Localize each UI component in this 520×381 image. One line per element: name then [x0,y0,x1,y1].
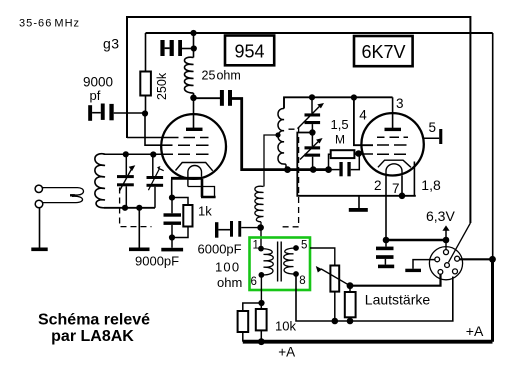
svg-text:+A: +A [278,345,295,360]
tube U2 6K7 envelope [361,113,423,175]
tube U2 anode pin3 [392,97,394,128]
resistor 1,5M [329,150,359,169]
inductor 25 ohm [184,33,240,98]
node inter-cap [309,129,315,135]
resistor A (parallel pair left) [238,303,262,342]
tube U2 pin2 lead [385,176,387,240]
ground socket [405,269,421,272]
wire pin6 down [260,275,262,303]
capacitor cathode bypass [164,198,182,248]
antenna link coil [43,188,84,195]
svg-text:1,8: 1,8 [421,177,441,193]
node varcapB bottom [310,166,317,173]
node resistor left [325,166,332,173]
wire rail right leg [413,162,415,196]
capacitor 9000pf [83,74,145,120]
dashed shield tuning coil [120,188,152,227]
node resistor pair top [258,300,264,306]
svg-text:+A: +A [466,323,484,339]
tube U1 anode [193,98,195,128]
inductor IF transformer primary [278,97,286,169]
node cathode tube1 [169,195,175,201]
resistor 250k [140,33,169,114]
wire grid2 branch tube2 [354,98,373,146]
wire B+ bus y=33 [146,32,493,34]
svg-text:6000pF: 6000pF [198,242,242,257]
node +A right [489,256,496,263]
transformer T1 green box [250,238,311,291]
svg-text:1: 1 [253,240,259,252]
wire socket left pin to ground [413,260,435,269]
tube U2 screen dome [378,160,411,167]
node grid2 branch [351,94,357,100]
node varcap2 top [150,151,156,157]
svg-text:10k: 10k [275,318,296,333]
node 10k chain bottom [332,318,339,325]
svg-text:g3: g3 [103,36,120,52]
inductor main tuning coil [95,154,105,208]
wire g3 loop top [127,17,470,223]
svg-text:7: 7 [392,181,400,196]
node pot bottom [347,318,354,325]
wire +A right drop [491,259,494,341]
tube U1 cathode bar [171,177,202,180]
node coil tap [275,132,280,137]
wire pin5 to series resistor [310,248,335,266]
wire intercap to cathode rail [297,133,416,196]
tube U1 grid2 dashes [178,144,209,146]
node cathode RC bottom [169,234,175,240]
tube U1 grid1 (g3) dashes [127,137,209,139]
variable capacitor CB [300,133,323,170]
svg-text:6: 6 [251,276,257,288]
ground antenna [31,248,47,252]
svg-text:25 ohm: 25 ohm [202,69,241,83]
svg-text:8: 8 [299,275,305,287]
svg-text:100: 100 [215,259,240,274]
capacitor anode coupling tube1 [194,90,233,106]
resistor B (parallel pair right) [256,303,267,342]
capacitor grid coupling top (at 160,48) [160,40,194,56]
wire socket shield pointer [449,223,471,262]
wire coil bottom [104,207,155,209]
svg-text:6,3V: 6,3V [426,208,455,224]
tube U1 grid3 wire from coil [104,153,209,155]
wire socket right pin to +A drop [460,258,493,260]
svg-text:2: 2 [374,178,382,193]
svg-text:3: 3 [396,96,404,111]
capacitor 6000pF [198,221,259,257]
inductor RF choke [255,186,264,222]
svg-text:Schéma relevé: Schéma relevé [38,312,150,329]
svg-text:1,5: 1,5 [331,117,349,132]
junction dot cap/25ohm [191,45,197,51]
svg-text:5: 5 [301,239,307,251]
node pin7 cathode [399,193,406,200]
wire cathode lead tube1 [171,180,173,198]
tube U2 grid2 dashes [377,144,407,146]
wire IF top [284,97,393,108]
node varcapA top [309,94,315,100]
tube U2 grid3 dashes [359,153,406,155]
tube U1 screen dome [176,163,213,171]
potentiometer Lautstaerke [316,266,431,321]
capacitor heater bypass stack [376,240,394,268]
svg-text:M: M [335,132,345,146]
pin 5 wire and stub [423,137,439,139]
tube U1 heater strap [188,187,215,198]
node 250k/9000pf junction [142,110,148,116]
svg-text:9000pF: 9000pF [135,253,179,268]
wire coupling to IF transformer [232,99,329,170]
svg-text:ohm: ohm [217,275,242,290]
node varcap1 bottom [122,205,128,211]
wire heater 6,3V [386,239,446,242]
svg-text:Lautstärke: Lautstärke [365,291,431,307]
wire to grid2 of tube1 [145,114,173,146]
svg-text:954: 954 [234,42,264,62]
node grid3 tube2 [355,150,362,157]
transformer T1 windings [258,242,299,282]
svg-text:6K7V: 6K7V [361,42,405,62]
tube U1 954 envelope [161,114,226,179]
tube U2 grid1 dashes [377,136,408,138]
ground cathode [161,248,183,252]
wire tap to choke [264,135,278,187]
svg-text:5: 5 [429,120,437,135]
wire choke to transformer pin1 [260,228,262,249]
resistor 1k [172,198,212,238]
box label 954 [225,36,274,66]
svg-text:1k: 1k [198,203,212,218]
dashed shield IF [280,127,299,227]
svg-text:250k: 250k [155,72,169,100]
svg-text:pf: pf [90,88,101,103]
resistor series 10k [330,266,339,292]
wire ground branch coil [138,208,140,248]
svg-text:par LA8AK: par LA8AK [51,328,134,345]
tube U1 heater arch [188,166,202,187]
wire antenna ground lead [39,208,41,248]
node ground branch [136,205,142,211]
capacitor under 1,5M [329,154,360,177]
arrow 6,3V supply [445,230,447,240]
node IF coil bottom [284,166,291,173]
node heater left [383,237,390,244]
wire pin8 to bottom bus [296,274,453,321]
wire +A bottom rail [243,340,493,344]
connector tube socket [429,243,462,280]
node varcap1 top [123,151,129,157]
node rail resistor B [258,338,265,345]
variable capacitor CA [298,97,325,132]
node pot top [347,282,354,289]
node anode tube1 [190,95,197,102]
tube U2 pin7 lead [401,176,403,196]
svg-text:35-66 MHz: 35-66 MHz [19,17,80,29]
variable capacitor C1 [117,154,135,208]
ground tuning coil [129,248,150,252]
box label 6K7V [354,36,413,66]
tube U2 heater arch [386,164,402,176]
junction dot 25ohm branch [190,30,196,36]
variable capacitor C2 [147,155,164,208]
wire pot top to socket [350,274,441,285]
ground cathode rail [358,196,360,208]
svg-text:4: 4 [359,108,367,123]
node choke/6000pF junction [257,224,264,231]
antenna input connectors [35,185,42,192]
node heater right [443,237,450,244]
